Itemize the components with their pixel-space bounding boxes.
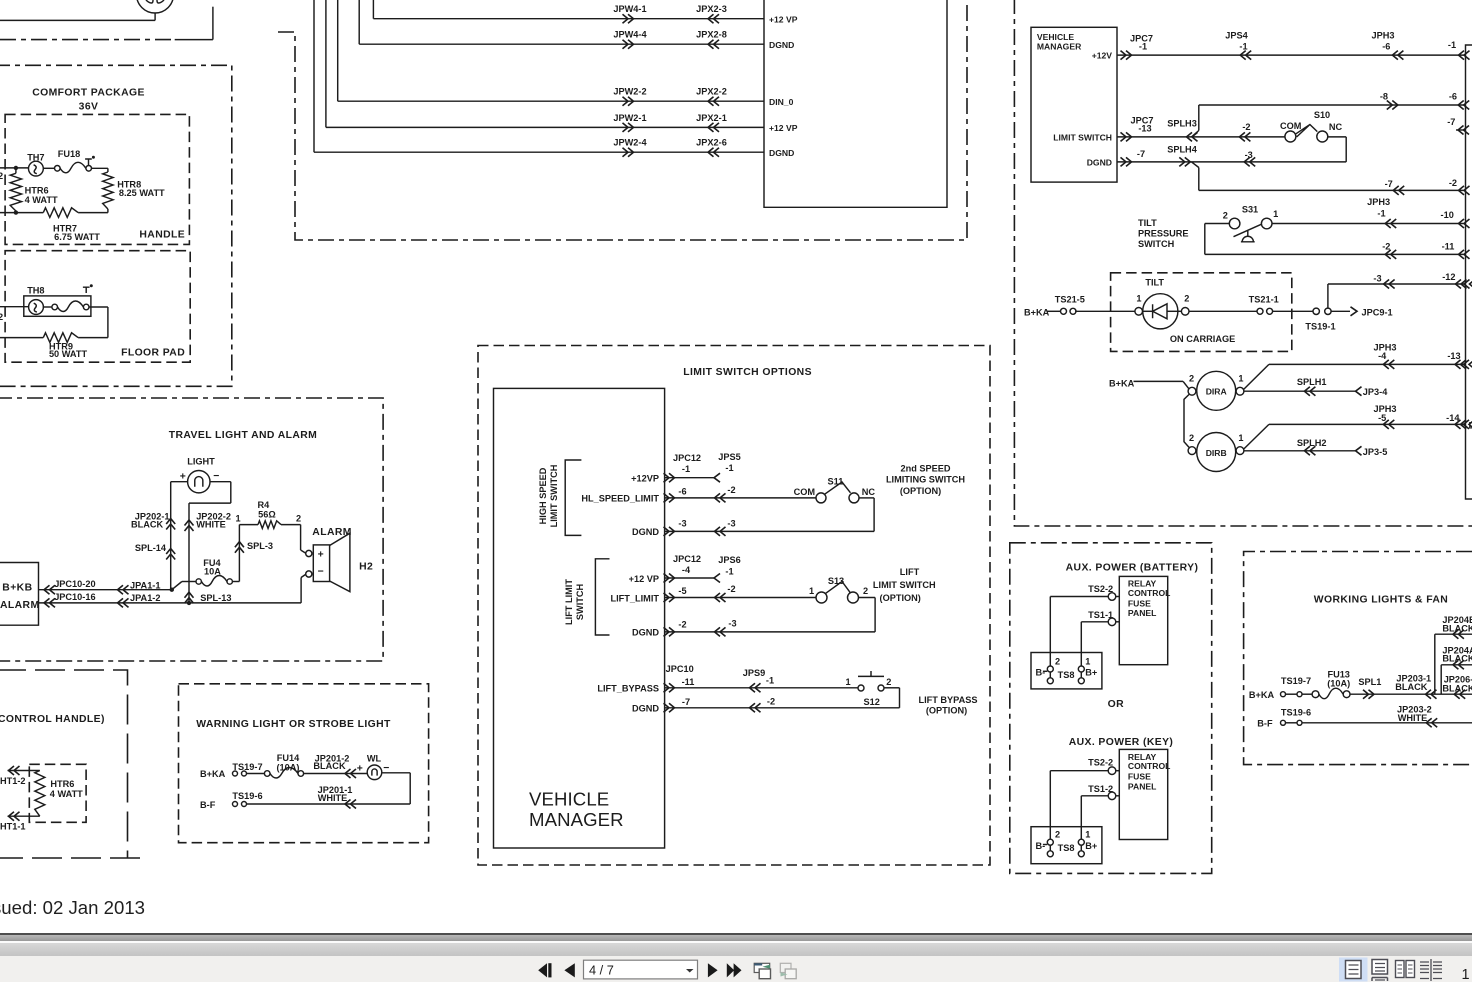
wire JPW2-4 to JPX2-6 net DGND — [313, 0, 315, 152]
last page nav button — [727, 963, 742, 977]
LIMIT SWITCH OPTIONS dashed box — [478, 346, 990, 866]
single page layout button (selected) — [1339, 958, 1368, 982]
wire light - down loop — [210, 481, 231, 483]
resistor HTR6 — [15, 168, 17, 173]
working lights dashed box (cut right) — [1244, 552, 1472, 765]
document footer text Issued: 02 Jan 2013 — [0, 897, 145, 919]
COMFORT PACKAGE option box (dashed) — [0, 65, 232, 386]
resistor HTR7 — [43, 208, 78, 218]
resistor HTR8 — [103, 172, 113, 209]
wire JPH3-5 to -14 — [1244, 424, 1269, 449]
thermostat TH8 fuse assembly box — [24, 296, 91, 316]
wire R4 to alarm + — [300, 525, 302, 550]
wire to TH8 — [0, 306, 29, 308]
wire bottom row handle — [0, 212, 43, 214]
pdf viewer bottom toolbar — [0, 933, 1472, 935]
wire stub top-left vertical — [212, 7, 214, 40]
previous page nav button — [564, 963, 574, 977]
wire to HTR9 — [89, 306, 108, 308]
wire fuse to HTR8 — [92, 167, 108, 169]
wire top row handle — [0, 167, 29, 169]
wire S31 pin2 loop to -11 — [1204, 224, 1206, 255]
control handle dashed box (cut left) — [0, 670, 140, 858]
HTR6 dashed box control handle — [29, 764, 86, 822]
wire diode pin2 to JPC9-1 — [1181, 308, 1189, 316]
relay control fuse panel box 2 — [1119, 749, 1167, 839]
wire light + down to JPA1-1 — [171, 481, 188, 483]
svg-text:1: 1 — [1462, 967, 1470, 982]
FLOOR PAD inner dashed box — [5, 251, 190, 363]
next page nav button — [708, 963, 718, 977]
facing pages layout button — [1396, 961, 1405, 978]
wire -8 to -6 — [1199, 104, 1466, 106]
wire JPC10-20 JPA1-1 row — [39, 589, 172, 591]
wire TH7 to fuse — [43, 167, 54, 169]
wire -3 to -12 row — [1327, 284, 1329, 308]
wire alarm - down — [300, 578, 302, 603]
svg-text:4 / 7: 4 / 7 — [589, 963, 614, 978]
relay coil DIRA — [1197, 371, 1236, 410]
wire S11 NC loop to DGND — [859, 497, 874, 499]
wire DIRA pin2 down to DIRB pin2 — [1184, 394, 1190, 448]
top-right option box (dash-dot) — [1014, 0, 1472, 526]
wire -7 to -2 row — [1198, 168, 1200, 191]
HANDLE inner dashed box — [5, 114, 189, 244]
right-edge controller box (cut off) — [1466, 45, 1472, 499]
terminal strip TS8 key — [1031, 827, 1102, 864]
B+KB ALARM box (cut left) — [0, 563, 39, 626]
wire JPW2-1 to JPX2-1 net +12 VP — [325, 0, 327, 127]
alarm speaker H2 — [306, 550, 312, 556]
wire HT1-2 — [8, 770, 40, 772]
wire NC loop down — [1327, 136, 1346, 138]
vehicle manager box center — [494, 388, 665, 848]
wire JPH3-4 to -13 — [1244, 364, 1269, 389]
wire S12 loop to DGND — [884, 687, 900, 689]
page number combo box — [584, 960, 698, 979]
wire DGND -7 SPLH4 -3 — [1117, 161, 1346, 163]
diode TILT — [1143, 294, 1178, 329]
continuous facing layout button — [1420, 959, 1442, 981]
wire WL loop to row2 — [382, 772, 410, 774]
thermostat TH7 — [29, 161, 44, 176]
T* mark floor pad — [83, 287, 90, 293]
wire stub -7 right edge — [1456, 129, 1466, 131]
high speed limit switch group bracket — [565, 460, 581, 535]
wire JPW2-2 to JPX2-2 net DIN_0 — [337, 0, 339, 101]
previous view button — [754, 963, 770, 972]
wire SPLH1 to JP3-4 — [1244, 390, 1356, 392]
wire from fan to left edge — [154, 13, 156, 21]
aux power dashed box — [1010, 543, 1212, 874]
next view button (disabled) — [780, 963, 791, 972]
wire JP204B branch — [1434, 634, 1436, 694]
wire JP204A branch — [1440, 665, 1442, 694]
switch S13 lift limit — [816, 592, 827, 603]
wire HT1-1 — [8, 815, 40, 817]
wire +12V JPC7-1 to JPH3-6 — [1117, 54, 1466, 56]
controller box (cut at top) — [764, 0, 947, 207]
TILT ON CARRIAGE dashed box — [1111, 273, 1292, 352]
thermal cutout T* mark — [85, 159, 92, 165]
continuous layout button — [1372, 960, 1388, 975]
junction node — [14, 166, 18, 170]
lift limit switch group bracket — [595, 559, 609, 635]
terminal strip TS8 battery — [1031, 653, 1102, 689]
wire S13 loop to DGND — [859, 597, 875, 599]
wire LIMIT SWITCH JPC7-13 via SPLH3 to S10 — [1117, 136, 1285, 138]
relay coil DIRB — [1197, 433, 1236, 472]
top-center option box (dash-dot) — [278, 0, 967, 240]
wire JPC10-16 JPA1-2 row — [39, 602, 302, 604]
thermostat TH8 — [29, 300, 44, 315]
warning light dashed box — [179, 684, 429, 843]
wire S31 pin1 to -10 — [1272, 223, 1466, 225]
fuse FU18 — [55, 166, 61, 172]
fuse in floor pad — [43, 306, 52, 308]
wire JPW4-4 to JPX2-8 net DGND — [358, 0, 360, 44]
switch S11 COM-NC 2nd speed — [816, 493, 826, 503]
first page nav button — [538, 963, 547, 977]
dash-dot border segment top-left — [0, 39, 175, 41]
fan motor symbol (cut off at top) — [137, 0, 174, 13]
pushbutton switch S12 — [858, 685, 864, 691]
switch S10 COM-NC — [1285, 131, 1296, 142]
resistor HTR9 — [78, 337, 108, 339]
vehicle manager box top-right — [1031, 27, 1117, 182]
relay control fuse panel box 1 — [1119, 576, 1167, 664]
resistor HTR6 control handle — [35, 771, 45, 817]
wire JPW4-1 to JPX2-3 net +12 VP — [372, 0, 374, 19]
TRAVEL LIGHT AND ALARM dashed box — [0, 398, 383, 661]
wire SPLH2 to JP3-5 — [1244, 450, 1356, 452]
